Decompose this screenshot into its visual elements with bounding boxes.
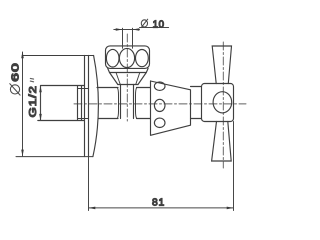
- neck between cone and hub: [191, 87, 202, 119]
- valve body cylinder top edge: [97, 87, 151, 89]
- Ø10 arrow left: [116, 28, 123, 31]
- svg-text:10: 10: [153, 19, 165, 30]
- bonnet inner face right: [136, 73, 140, 85]
- wall flange profile curve: [93, 56, 99, 157]
- knob circle left: [106, 49, 119, 67]
- bonnet inner face left: [116, 73, 120, 85]
- cone to handle: [151, 81, 191, 135]
- G1/2 arrow down: [39, 114, 42, 121]
- knob circle right: [136, 50, 149, 67]
- bonnet trapezoid right side: [138, 73, 146, 85]
- handle lower spoke: [212, 122, 232, 162]
- hub block: [202, 84, 234, 122]
- svg-text:81: 81: [152, 197, 165, 208]
- Ø10 label: [141, 19, 148, 27]
- wall flange: [85, 56, 89, 157]
- svg-text:60: 60: [9, 62, 21, 82]
- head cap outline: [106, 46, 150, 69]
- dimple circle top: [154, 82, 165, 90]
- Ø10 leader shelf: [140, 27, 169, 29]
- G1/2 dimension line: [40, 86, 42, 121]
- dimple circle bottom: [154, 118, 165, 127]
- valve body cylinder bottom edge: [98, 118, 150, 120]
- stem column: [121, 85, 134, 119]
- Ø60 arrow down: [21, 150, 24, 157]
- hub circle: [213, 92, 232, 113]
- Ø60 label: [10, 84, 20, 95]
- Ø60 arrow up: [21, 51, 24, 58]
- Ø10 extension lines: [123, 28, 133, 48]
- bonnet trapezoid left side: [110, 73, 118, 85]
- G1/2 arrow up: [39, 86, 42, 93]
- 81 dimension line: [89, 207, 234, 209]
- neck band below head: [108, 68, 148, 72]
- knob circle middle: [119, 48, 134, 67]
- dimple circle middle: [154, 99, 165, 111]
- 81 extension line right: [233, 122, 235, 211]
- 81 arrow left: [89, 207, 96, 210]
- stem boss flare right: [136, 88, 137, 119]
- 81 arrow right: [227, 207, 234, 210]
- pipe G1/2 threaded tail: [38, 86, 85, 121]
- stem boss flare left: [117, 88, 118, 119]
- 81 extension line left: [88, 157, 90, 211]
- svg-text:G1/2: G1/2: [28, 85, 38, 117]
- G1/2 inch ticks: [30, 78, 33, 81]
- centerline horizontal main axis: [74, 103, 246, 105]
- handle upper spoke: [212, 46, 231, 84]
- bonnet bottom edge: [118, 84, 138, 86]
- wall flange top edge + Ø60 top extension: [22, 55, 93, 57]
- centerline vertical handle axis: [222, 42, 224, 168]
- Ø10 arrow right: [133, 28, 140, 31]
- wall flange bottom edge + Ø60 bottom extension: [16, 156, 93, 158]
- pipe thread minor lines: [78, 89, 89, 119]
- Ø10 dimension line: [114, 29, 140, 31]
- centerline vertical stem axis: [126, 34, 128, 121]
- Ø60 dimension line: [22, 52, 24, 156]
